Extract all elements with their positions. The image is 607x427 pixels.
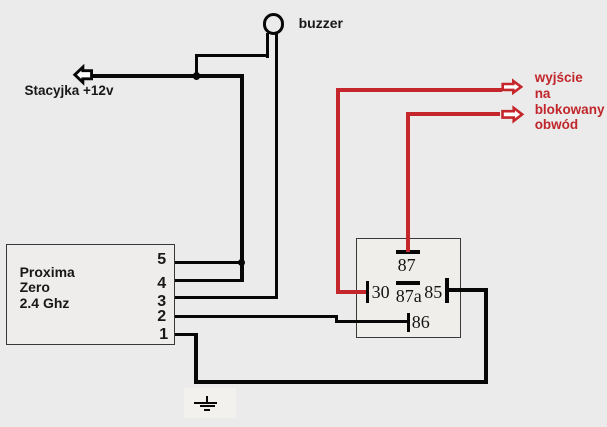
red wire: upper output horizontal (to 30) — [336, 88, 502, 92]
red arrow lower (output) — [500, 104, 526, 125]
label: 86 — [412, 313, 430, 331]
wire: vertical from +12V line down to pins 5/4 — [240, 74, 244, 282]
wire: horizontal buzzer branch — [195, 54, 269, 58]
relay pin 87 bar — [396, 250, 419, 254]
wire: pin 1 horizontal — [175, 333, 198, 336]
wire: main +12V horizontal (arrow to corner) — [91, 74, 244, 78]
label: 87 — [398, 256, 416, 274]
wire: right vertical up to relay 85 — [484, 288, 488, 384]
buzzer B1 (circle) — [263, 13, 285, 35]
ground bar wide — [194, 402, 217, 404]
wire: pin 2 to relay 86 — [335, 320, 407, 323]
wire: pin 2 step down — [335, 315, 338, 323]
red wire: lower output horizontal (to 87) — [406, 112, 500, 116]
wire: bottom long horizontal — [194, 380, 488, 384]
ground symbol stub — [206, 396, 208, 403]
light erase patch behind ground — [184, 388, 236, 418]
label: Stacyjka +12v — [25, 84, 114, 98]
wire: pin 5 to junction — [175, 261, 244, 264]
wire: buzzer left leg — [266, 33, 269, 58]
wire: horizontal into relay pin 85 — [448, 288, 489, 292]
label: pin 2 — [157, 309, 166, 325]
wire: pin 4 — [175, 279, 244, 282]
label: 85 — [424, 283, 442, 301]
Proxima Zero module box — [6, 244, 175, 345]
red wire: vertical down to pin 87 — [406, 112, 410, 252]
label: 2.4 Ghz — [20, 296, 70, 310]
arrow: Stacyjka +12v (hollow block arrow pointing left) — [70, 62, 96, 88]
label: Zero — [20, 280, 50, 294]
label: pin 1 — [159, 327, 168, 343]
label: buzzer — [299, 16, 343, 30]
red wire: into relay pin 30 — [336, 290, 367, 294]
relay pin 30 bar — [366, 281, 370, 302]
red wire: vertical down to pin 30 — [336, 88, 340, 294]
label: pin 5 — [157, 252, 166, 268]
relay box — [356, 238, 461, 339]
ground bar middle — [200, 405, 215, 407]
ground bar small — [204, 409, 211, 411]
wire: buzzer right leg down to pin 3 — [275, 33, 279, 299]
label: 87a — [396, 287, 422, 305]
label: wyjscie na blokowany obwod (red) — [535, 70, 605, 133]
label: pin 4 — [157, 276, 166, 292]
relay pin 86 bar — [407, 313, 411, 332]
junction dot at pin 5 branch — [238, 259, 245, 266]
wire: pin 3 — [175, 296, 278, 299]
label: pin 3 — [157, 294, 166, 310]
relay pin 87a bar — [396, 281, 420, 285]
junction dot on +12V line — [193, 72, 200, 79]
label: 30 — [372, 283, 390, 301]
wire: pin 1 vertical down — [194, 333, 198, 384]
wire: pin 2 horizontal — [175, 315, 338, 318]
wire: vertical from junction up to buzzer branch — [195, 54, 198, 78]
red arrow upper (output) — [500, 77, 526, 98]
relay pin 85 bar — [445, 278, 449, 303]
label: Proxima — [20, 265, 75, 279]
